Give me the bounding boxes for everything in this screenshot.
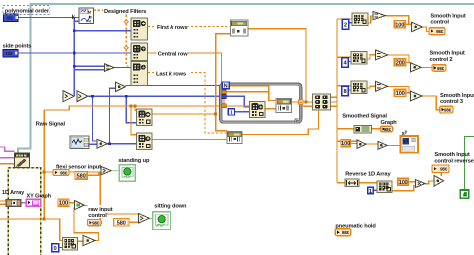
- wire trunk to Reverse 1D Array: [337, 182, 345, 184]
- wire chain2 icon to triangle: [367, 55, 376, 59]
- svg-text:580: 580: [77, 174, 86, 180]
- wire constant stubs 2/4/8/1: [349, 22, 352, 24]
- wire triangle to compare triangle: [425, 181, 434, 184]
- indicator flexi sensor input: [53, 169, 69, 175]
- svg-text:XY Graph: XY Graph: [27, 194, 52, 200]
- wire inside loop to replace subset: [227, 86, 277, 101]
- replace array subset inside loop U7: [276, 98, 291, 112]
- wire raw triangle out to index array p2: [108, 143, 137, 145]
- triangle function A2: [115, 82, 125, 92]
- reverse 1D array icon U19: [345, 179, 359, 187]
- loop resize corner glyph: [295, 119, 298, 122]
- svg-text:2: 2: [344, 22, 347, 28]
- selection marquee around polynomial order label: [3, 6, 50, 15]
- indicator pneumatic hold: [335, 229, 351, 236]
- svg-text:M: M: [88, 10, 91, 14]
- loop tunnel orange output (right): [299, 100, 303, 104]
- wire x squared loop back: [74, 208, 98, 241]
- svg-text:98Ɛ: 98Ɛ: [60, 170, 68, 175]
- constant 100 (chain1 threshold): [394, 21, 405, 29]
- svg-text:control: control: [88, 213, 107, 219]
- svg-text:100: 100: [396, 91, 405, 97]
- wire chain1 triangle to select: [385, 16, 408, 25]
- triangle chain3 A16: [376, 81, 388, 91]
- index array p1 U8: [137, 109, 153, 126]
- wire reverse icon to index array: [359, 182, 377, 184]
- constant 100 (chain3 threshold): [394, 89, 406, 97]
- replace array subset node (First k rows) U5: [231, 20, 248, 36]
- constant 100 (smoothed threshold): [341, 139, 350, 147]
- select chain1 A13: [412, 22, 423, 32]
- select chain3 A17: [411, 91, 423, 101]
- svg-text:200: 200: [396, 60, 405, 66]
- wire branch to smoothed signal icon: [337, 128, 354, 130]
- wire Build XY Graph orange input: [0, 163, 15, 165]
- wire First-k-rows node output down to 3-output index array: [248, 29, 306, 102]
- svg-text:98Ɛ: 98Ɛ: [444, 108, 452, 113]
- loop tunnel orange (central row in): [222, 90, 227, 94]
- wire Replace2 out to 3out node bottom: [242, 110, 318, 135]
- svg-text:98Ɛ: 98Ɛ: [436, 29, 444, 34]
- indicator raw input control: [88, 219, 102, 225]
- node dashed-wire diamond junctions: [124, 20, 128, 24]
- wire chain3 icon to triangle: [367, 86, 376, 88]
- comparator 100 A7: [75, 201, 85, 210]
- svg-text:Smooth Input: Smooth Input: [430, 13, 465, 19]
- svg-text:I32: I32: [6, 51, 13, 57]
- wire bundle input stubs: [0, 200, 6, 202]
- wire to First k rows index input: [74, 30, 131, 32]
- svg-text:control: control: [430, 20, 449, 26]
- constant I32 (side points control): [3, 50, 18, 58]
- wire side points to Central row index input: [18, 52, 131, 54]
- constant 200 (chain2 threshold): [394, 59, 406, 67]
- svg-text:98Ɛ: 98Ɛ: [384, 127, 392, 132]
- svg-text:P-0: P-0: [86, 20, 91, 24]
- diagram disable structure border: [8, 168, 41, 255]
- triangle chain1 A12: [373, 11, 385, 19]
- wire drop to index array p2: [131, 106, 137, 135]
- comparator reverse A19: [434, 176, 444, 186]
- boolean LED indicator standing up: [119, 165, 135, 181]
- constant 580 (sitting threshold): [114, 219, 129, 227]
- boolean LED indicator sitting down: [153, 212, 171, 230]
- index array (Last k rows) U4: [131, 62, 147, 86]
- index array inside loop U10: [250, 101, 265, 117]
- for loop structure: [220, 83, 302, 123]
- wire chain1 to indicator: [422, 27, 429, 31]
- constant 4 (chain2 index): [342, 58, 348, 67]
- wire Central row to loop tunnel: [148, 53, 222, 90]
- wire flexi sensor branch: [44, 171, 53, 173]
- wire teal reference wire to Build XY Graph: [18, 4, 474, 153]
- triangle chain2 A14: [376, 50, 388, 60]
- wire loop tunnel to 3out node: [303, 101, 313, 103]
- index array chain2 U14: [351, 52, 367, 65]
- svg-text:100: 100: [395, 22, 404, 28]
- replace array subset node 2 U6: [227, 131, 242, 143]
- constant I32 (polynomial order control): [3, 14, 18, 22]
- svg-text:100: 100: [341, 141, 350, 147]
- svg-text:Designed Filters: Designed Filters: [104, 9, 146, 15]
- constant 100 (bottom-left threshold): [58, 199, 69, 207]
- wire 100 comparator out: [84, 204, 100, 206]
- wire tunnel into loop icon: [227, 105, 250, 107]
- loop tunnel blue (count array in): [222, 95, 227, 99]
- x^y power express node U20: [401, 136, 419, 153]
- svg-text:1D Array: 1D Array: [2, 190, 25, 196]
- wire i terminal out: [234, 111, 249, 113]
- wire branch to compare triangle: [337, 140, 357, 142]
- wire triangle chain to x^y: [366, 143, 378, 145]
- index array (Central row) U3: [131, 43, 147, 60]
- svg-text:F: F: [463, 192, 466, 197]
- constant 2 (chain1 index): [342, 19, 348, 29]
- svg-text:control 2: control 2: [430, 57, 453, 63]
- triangle function raw A5: [97, 139, 108, 148]
- label "Last k rows": [155, 68, 191, 76]
- select chain2 A15: [411, 63, 422, 72]
- label "Central row": [156, 49, 187, 56]
- wire smoothed icon to Graph indicator: [371, 128, 380, 130]
- wire magenta cluster wires to Build XY Graph: [0, 147, 15, 151]
- wire raw source vertical and bottom run: [0, 110, 62, 241]
- wire raw input control run: [100, 213, 138, 215]
- wire green boolean to standing up LED: [111, 170, 119, 172]
- constant 580 (flexi threshold): [75, 172, 87, 180]
- comparator flexi A6: [101, 167, 111, 175]
- index array p2 U9: [137, 133, 153, 150]
- smoothed signal icon U18: [354, 126, 371, 133]
- svg-text:sitting down: sitting down: [154, 204, 187, 210]
- triangle function A4: [77, 91, 88, 102]
- bundle node U22: [6, 199, 21, 206]
- svg-text:0: 0: [54, 246, 57, 252]
- wire drop to index array p1: [135, 106, 137, 110]
- triangle smoothed A10: [357, 140, 366, 149]
- XY Graph terminal: [26, 199, 40, 206]
- svg-text:Graph: Graph: [381, 120, 398, 126]
- wire magenta bundle to XY Graph terminal: [21, 202, 26, 204]
- svg-text:standing up: standing up: [118, 158, 150, 164]
- wire chain1 icon to triangle: [368, 16, 373, 23]
- wire 100 to multiply triangle: [409, 181, 416, 183]
- node blue wire junctions: [73, 65, 76, 68]
- wire polynomial order to SG filter k input: [18, 17, 79, 19]
- svg-text:100: 100: [399, 180, 408, 186]
- wire triangle out to Last k rows index: [114, 67, 131, 69]
- wire branch down to index array p1: [126, 96, 136, 123]
- wire 3out node outputs: [330, 96, 337, 98]
- index array (First k rows) U2: [131, 18, 147, 40]
- wire dashed Last k rows: [148, 71, 156, 73]
- svg-text:98Ɛ: 98Ɛ: [342, 230, 350, 235]
- multiply triangle reverse A18: [416, 180, 425, 188]
- svg-text:flexi sensor input: flexi sensor input: [56, 164, 101, 170]
- wire raw signal riser to loop tunnel: [44, 106, 222, 110]
- triangle function A3: [63, 91, 74, 102]
- indicator Smooth Input control 2: [432, 65, 446, 71]
- 3-output index array node U12: [313, 94, 331, 110]
- svg-text:Raw Signal: Raw Signal: [36, 122, 66, 128]
- indicator Graph: [381, 126, 393, 132]
- svg-text:Smooth Input: Smooth Input: [434, 152, 469, 158]
- triangle x squared A9: [83, 235, 95, 245]
- svg-text:pneumatic hold: pneumatic hold: [335, 223, 376, 229]
- wire dashed First k rows: [148, 26, 157, 28]
- node orange junctions: [130, 104, 133, 107]
- wire 100 to triangle: [350, 142, 357, 144]
- raw signal dynamic-data icon U17: [70, 136, 89, 148]
- wire raw junction up to triangle: [109, 88, 115, 144]
- SG filter design VI U1: [79, 8, 93, 23]
- wire replace subset to out tunnel: [292, 101, 299, 103]
- index array chain3 U15: [351, 81, 367, 94]
- svg-text:98Ɛ: 98Ɛ: [437, 66, 445, 71]
- svg-text:580: 580: [117, 220, 126, 226]
- wire triangle out to N terminal: [125, 84, 222, 86]
- svg-text:Reverse 1D Array: Reverse 1D Array: [345, 172, 391, 178]
- wire array trunk vertical A (to First k rows node and Replace node): [216, 34, 232, 131]
- wire 100 bottom-left out: [69, 202, 75, 204]
- svg-text:N: N: [224, 84, 228, 90]
- Build XY Graph express VI U16: [15, 153, 30, 167]
- svg-text:98Ɛ: 98Ɛ: [92, 220, 100, 225]
- svg-text:98Ɛ: 98Ɛ: [440, 167, 448, 172]
- loop iteration terminal i: [228, 109, 234, 116]
- wire dashed Designed Filters: [93, 9, 126, 11]
- triangle function (2k+1) A1: [105, 64, 114, 72]
- wire triangle pair output long to loop tunnel: [88, 95, 222, 97]
- svg-text:Smoothed Signal: Smoothed Signal: [342, 113, 387, 119]
- wire polynomial/side vertical trunk: [73, 18, 75, 97]
- wire green boolean from right edge to F constant: [465, 137, 474, 190]
- svg-text:Smooth Input: Smooth Input: [440, 93, 474, 99]
- indicator Smooth Input control reverse: [432, 165, 449, 173]
- constant F boolean: [460, 190, 469, 198]
- wire index out to multiply triangle: [392, 186, 416, 191]
- constant 8 (chain3 index): [342, 86, 348, 95]
- wire chain3 to indicator 3: [422, 96, 440, 110]
- svg-text:control reverse: control reverse: [434, 159, 473, 165]
- wire 580 to comparator: [87, 173, 101, 175]
- constant 1 (reverse index): [368, 187, 374, 195]
- label "raw input": [88, 205, 112, 212]
- svg-text:Smooth Input: Smooth Input: [430, 51, 465, 57]
- wire loop icon to replace subset: [265, 108, 276, 110]
- constant 0 (bottom index): [52, 244, 59, 252]
- wire 0 constant out: [59, 247, 63, 249]
- indicator Smooth Input control: [429, 28, 445, 35]
- svg-text:Last k rows: Last k rows: [156, 72, 186, 78]
- wire vertical to sitting comparator: [99, 172, 101, 223]
- svg-text:Central row: Central row: [158, 51, 189, 57]
- index array reverse chain U21: [377, 181, 392, 193]
- wire to triangle inputs: [74, 65, 104, 67]
- loop count terminal N: [222, 82, 229, 90]
- wire inside loop from tunnel: [227, 96, 250, 107]
- svg-text:control 3: control 3: [440, 99, 463, 105]
- comparator sitting A8: [139, 214, 150, 224]
- wire branch down to raw triangle: [92, 96, 96, 141]
- wire branches to smooth chains: [337, 18, 352, 20]
- label "flexi sensor input": [55, 162, 98, 169]
- svg-text:I32: I32: [6, 16, 13, 22]
- loop tunnel orange (raw array in): [222, 104, 227, 108]
- wire green boolean to sitting down LED: [149, 217, 153, 219]
- triangle smoothed 2 A11: [378, 141, 387, 149]
- wire raw icon out: [89, 143, 97, 145]
- svg-text:100: 100: [59, 201, 68, 207]
- wire index array p1 out: [152, 113, 216, 115]
- wire index array p2 out: [152, 139, 227, 141]
- indicator Smooth Input control 3: [440, 106, 453, 113]
- svg-text:First k rows: First k rows: [157, 25, 188, 31]
- wire indicator stub: [440, 173, 442, 177]
- label "First k rows": [156, 22, 188, 30]
- wire main orange trunk vertical: [336, 19, 338, 183]
- index array bottom U11: [62, 237, 77, 250]
- label "control": [88, 212, 106, 218]
- label "Designed Filters": [103, 6, 145, 14]
- svg-text:side points: side points: [3, 44, 32, 50]
- wire tunnel-to-tunnel segment on loop edge: [223, 94, 225, 104]
- constant 100 (reverse threshold): [398, 178, 409, 186]
- index array chain1 U13: [352, 13, 368, 25]
- wire 580 to sitting comparator: [129, 221, 139, 223]
- svg-text:polynomial order: polynomial order: [5, 9, 50, 15]
